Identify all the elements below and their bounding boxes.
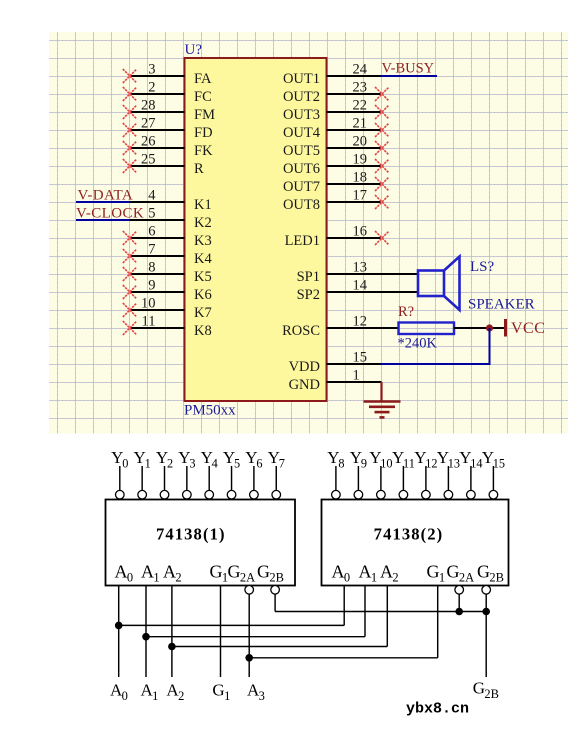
svg-text:K7: K7 xyxy=(194,305,212,321)
svg-text:3: 3 xyxy=(148,62,155,78)
svg-text:1: 1 xyxy=(353,368,360,384)
svg-text:K3: K3 xyxy=(194,233,212,249)
svg-text:OUT3: OUT3 xyxy=(283,107,320,123)
svg-text:23: 23 xyxy=(353,80,368,96)
svg-text:20: 20 xyxy=(353,134,368,150)
svg-text:FK: FK xyxy=(194,143,213,159)
svg-text:24: 24 xyxy=(353,62,368,78)
svg-text:9: 9 xyxy=(148,278,155,294)
svg-text:V-CLOCK: V-CLOCK xyxy=(76,206,144,222)
svg-text:SP1: SP1 xyxy=(297,269,320,285)
svg-text:K1: K1 xyxy=(194,197,212,213)
svg-text:VCC: VCC xyxy=(511,320,545,337)
svg-text:10: 10 xyxy=(141,296,156,312)
svg-text:2: 2 xyxy=(148,80,155,96)
svg-text:R: R xyxy=(194,161,204,177)
svg-text:6: 6 xyxy=(148,224,155,240)
svg-text:OUT6: OUT6 xyxy=(283,161,320,177)
svg-text:ybx8.cn: ybx8.cn xyxy=(406,701,469,718)
svg-text:V-DATA: V-DATA xyxy=(78,188,134,204)
svg-text:5: 5 xyxy=(148,206,155,222)
svg-text:74138(2): 74138(2) xyxy=(374,525,444,544)
svg-text:27: 27 xyxy=(141,116,156,132)
svg-text:K8: K8 xyxy=(194,323,212,339)
svg-text:15: 15 xyxy=(353,350,368,366)
svg-text:ROSC: ROSC xyxy=(282,323,320,339)
svg-text:13: 13 xyxy=(353,260,368,276)
svg-text:K2: K2 xyxy=(194,215,212,231)
svg-text:7: 7 xyxy=(148,242,155,258)
svg-text:16: 16 xyxy=(353,224,368,240)
svg-text:18: 18 xyxy=(353,170,368,186)
svg-text:VDD: VDD xyxy=(289,359,320,375)
svg-text:U?: U? xyxy=(185,42,203,58)
svg-text:SPEAKER: SPEAKER xyxy=(468,297,535,313)
svg-text:PM50xx: PM50xx xyxy=(184,403,236,419)
svg-text:OUT8: OUT8 xyxy=(283,197,320,213)
svg-text:V-BUSY: V-BUSY xyxy=(382,61,435,77)
svg-text:FM: FM xyxy=(194,107,215,123)
svg-text:74138(1): 74138(1) xyxy=(156,525,226,544)
svg-text:SP2: SP2 xyxy=(297,287,320,303)
svg-text:11: 11 xyxy=(142,314,156,330)
svg-text:OUT7: OUT7 xyxy=(283,179,320,195)
svg-text:28: 28 xyxy=(141,98,156,114)
svg-text:LED1: LED1 xyxy=(285,233,320,249)
svg-text:19: 19 xyxy=(353,152,368,168)
svg-text:OUT1: OUT1 xyxy=(283,71,320,87)
svg-text:22: 22 xyxy=(353,98,368,114)
svg-text:OUT2: OUT2 xyxy=(283,89,320,105)
svg-text:K5: K5 xyxy=(194,269,212,285)
svg-text:FD: FD xyxy=(194,125,213,141)
svg-text:4: 4 xyxy=(148,188,156,204)
svg-text:26: 26 xyxy=(141,134,156,150)
svg-text:K6: K6 xyxy=(194,287,212,303)
svg-text:OUT4: OUT4 xyxy=(283,125,321,141)
svg-text:8: 8 xyxy=(148,260,155,276)
svg-text:12: 12 xyxy=(353,314,368,330)
svg-text:*240K: *240K xyxy=(398,336,438,352)
svg-text:FC: FC xyxy=(194,89,212,105)
svg-text:FA: FA xyxy=(194,71,212,87)
svg-text:R?: R? xyxy=(398,304,414,320)
svg-text:OUT5: OUT5 xyxy=(283,143,320,159)
svg-text:21: 21 xyxy=(353,116,368,132)
svg-text:GND: GND xyxy=(289,377,320,393)
svg-text:25: 25 xyxy=(141,152,156,168)
svg-text:LS?: LS? xyxy=(470,259,495,275)
svg-text:17: 17 xyxy=(353,188,368,204)
svg-text:14: 14 xyxy=(353,278,368,294)
svg-text:K4: K4 xyxy=(194,251,212,267)
